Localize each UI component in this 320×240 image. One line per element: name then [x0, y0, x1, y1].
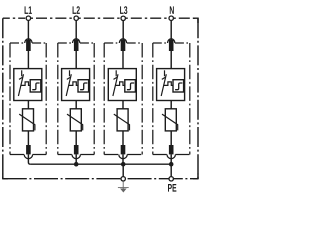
- label L1: [25, 6, 32, 14]
- step glyph (module 4): [175, 83, 182, 90]
- switch fixed contact tick (module 1): [21, 70, 23, 76]
- switch blade (module 1): [18, 74, 23, 96]
- terminal PE node: [169, 177, 173, 181]
- terminal L2: [74, 16, 78, 20]
- disconnector contact top (module 1): [26, 40, 31, 51]
- wire L3 terminal to disconnector: [122, 18, 124, 40]
- enclosure bottom edge: [3, 178, 198, 180]
- varistor RV3 body: [117, 109, 128, 131]
- wire disconnector to monitoring unit (module 1): [27, 51, 29, 69]
- disconnector contact top (module 4): [169, 40, 174, 51]
- varistor RV4 body: [165, 109, 176, 131]
- enclosure left edge: [2, 18, 4, 179]
- wire monitoring unit to varistor (module 3): [122, 101, 124, 109]
- varistor RV3 diagonal: [114, 114, 130, 130]
- junction module 2 to bus: [74, 162, 79, 167]
- signal box (module 2): [78, 80, 89, 92]
- varistor RV2 diagonal: [67, 114, 83, 130]
- signal step link (module 2): [68, 82, 78, 86]
- wire module 1 to PE bus: [28, 154, 30, 164]
- monitoring unit box (module 3): [108, 69, 136, 101]
- wire varistor to bottom disconnector (module 3): [122, 131, 124, 145]
- label N: [170, 6, 174, 14]
- disconnector contact top (module 2): [74, 40, 79, 51]
- switch actuator tick (module 3): [114, 77, 118, 79]
- module box 2 outline: [58, 39, 94, 159]
- varistor RV4 diagonal: [162, 114, 178, 130]
- enclosure corner caps: [193, 18, 198, 23]
- varistor RV1 diagonal: [19, 114, 35, 130]
- module box 3 outline: [104, 39, 142, 159]
- label L2: [73, 6, 80, 14]
- label L3: [120, 6, 127, 14]
- wire L2 terminal to disconnector: [75, 18, 77, 40]
- wire N terminal to disconnector: [170, 18, 172, 40]
- monitoring unit box (module 2): [62, 69, 90, 101]
- terminal L3: [121, 16, 125, 20]
- wire varistor to bottom disconnector (module 2): [75, 131, 77, 145]
- switch fixed contact tick (module 3): [115, 70, 117, 76]
- earth terminal node: [121, 177, 125, 181]
- monitoring unit box (module 4): [157, 69, 185, 101]
- signal step link (module 4): [163, 82, 173, 86]
- switch blade (module 3): [113, 74, 118, 96]
- wire L1 terminal to disconnector: [27, 18, 29, 40]
- label PE: [168, 184, 176, 192]
- module box 1 outline: [10, 39, 46, 159]
- signal step link (module 1): [21, 82, 31, 86]
- step glyph (module 2): [80, 83, 87, 90]
- switch blade (module 4): [161, 74, 166, 96]
- wire disconnector to monitoring unit (module 4): [170, 51, 172, 69]
- wire varistor to bottom disconnector (module 1): [27, 131, 29, 145]
- monitoring unit box (module 1): [14, 69, 42, 101]
- switch actuator tick (module 1): [19, 77, 23, 79]
- wire disconnector to monitoring unit (module 3): [122, 51, 124, 69]
- wire monitoring unit to varistor (module 1): [27, 101, 29, 109]
- enclosure top edge: [3, 17, 26, 19]
- signal box (module 3): [125, 80, 136, 92]
- switch fixed contact tick (module 2): [69, 70, 71, 76]
- switch actuator tick (module 4): [162, 77, 166, 79]
- ground symbol: [118, 181, 129, 192]
- disconnector contact top (module 3): [121, 40, 126, 51]
- switch fixed contact tick (module 4): [164, 70, 166, 76]
- disconnector contact bottom (module 3): [121, 145, 126, 154]
- enclosure right edge: [197, 18, 199, 179]
- disconnector contact bottom (module 4): [169, 145, 174, 154]
- disconnector contact bottom (module 2): [74, 145, 79, 154]
- junction module 3 to bus: [121, 162, 126, 167]
- varistor RV1 body: [23, 109, 34, 131]
- junction module 4 to bus: [169, 162, 174, 167]
- terminal L1: [26, 16, 30, 20]
- step glyph (module 3): [127, 83, 134, 90]
- wire monitoring unit to varistor (module 4): [170, 101, 172, 109]
- terminal N: [169, 16, 173, 20]
- wire module 4 to PE bus: [170, 154, 172, 164]
- wire monitoring unit to varistor (module 2): [75, 101, 77, 109]
- disconnector contact bottom (module 1): [26, 145, 31, 154]
- switch blade (module 2): [66, 74, 71, 96]
- wire module 2 to PE bus: [75, 154, 77, 164]
- signal step link (module 3): [115, 82, 125, 86]
- varistor RV2 body: [70, 109, 81, 131]
- PE bus wire: [30, 163, 171, 165]
- wire disconnector to monitoring unit (module 2): [75, 51, 77, 69]
- wire varistor to bottom disconnector (module 4): [170, 131, 172, 145]
- signal box (module 4): [173, 80, 184, 92]
- module box 4 outline: [153, 39, 190, 159]
- signal box (module 1): [30, 80, 41, 92]
- step glyph (module 1): [32, 83, 39, 90]
- wire bus to earth terminal: [122, 164, 124, 179]
- wire bus to PE terminal: [170, 164, 172, 179]
- wire module 3 to PE bus: [122, 154, 124, 164]
- switch actuator tick (module 2): [67, 77, 71, 79]
